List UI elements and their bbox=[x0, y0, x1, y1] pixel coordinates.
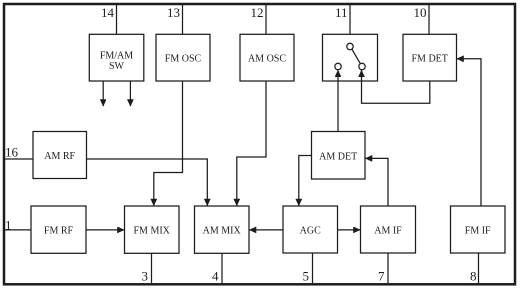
svg-text:12: 12 bbox=[251, 5, 264, 20]
block AM OSC bbox=[240, 34, 294, 81]
svg-text:FM OSC: FM OSC bbox=[165, 54, 202, 65]
wire FM IF to FM DET bbox=[457, 59, 481, 206]
wire AGC to AM MIX bbox=[250, 229, 284, 231]
block FM OSC bbox=[156, 34, 210, 81]
block FM RF bbox=[31, 206, 86, 253]
wire FM DET to switch right terminal bbox=[362, 70, 430, 103]
block FM IF bbox=[451, 206, 506, 253]
pin 11 bbox=[335, 5, 350, 35]
pin 4 bbox=[212, 253, 222, 283]
svg-text:3: 3 bbox=[142, 269, 149, 284]
wire AM DET to AGC bbox=[299, 156, 312, 206]
svg-text:8: 8 bbox=[470, 269, 477, 284]
svg-text:AGC: AGC bbox=[300, 226, 321, 237]
wire AM OSC to AM MIX bbox=[237, 81, 266, 206]
pin 5 bbox=[303, 253, 313, 284]
svg-text:7: 7 bbox=[378, 269, 385, 284]
svg-text:AM DET: AM DET bbox=[319, 151, 357, 162]
svg-text:FM/AM: FM/AM bbox=[100, 51, 133, 62]
pin 10 bbox=[414, 5, 430, 35]
block AGC bbox=[283, 206, 338, 253]
block AM DET bbox=[312, 132, 366, 180]
block AM RF bbox=[33, 132, 87, 179]
wire AM RF to AM MIX bbox=[87, 159, 208, 206]
block FM MIX bbox=[125, 206, 180, 253]
svg-text:AM MIX: AM MIX bbox=[203, 226, 242, 237]
svg-text:FM DET: FM DET bbox=[411, 54, 447, 65]
svg-text:FM MIX: FM MIX bbox=[133, 226, 170, 237]
svg-text:14: 14 bbox=[101, 5, 115, 20]
pin 13 bbox=[167, 5, 183, 35]
wire AM IF to AM DET bbox=[366, 158, 389, 206]
svg-text:AM OSC: AM OSC bbox=[248, 54, 286, 65]
svg-text:AM IF: AM IF bbox=[374, 226, 402, 237]
block FM DET bbox=[403, 34, 457, 81]
wire AM DET to switch left terminal bbox=[337, 70, 339, 131]
wire FM RF to FM MIX bbox=[86, 229, 124, 231]
svg-text:13: 13 bbox=[167, 5, 180, 20]
svg-text:5: 5 bbox=[303, 269, 310, 284]
block FM/AM SW bbox=[89, 34, 144, 81]
wire FM/AM SW output A bbox=[102, 81, 104, 106]
svg-text:AM RF: AM RF bbox=[44, 151, 75, 162]
pin 3 bbox=[142, 253, 152, 283]
wire AGC to AM IF bbox=[338, 229, 361, 231]
pin 1 bbox=[5, 217, 32, 232]
pin 16 bbox=[5, 145, 34, 160]
svg-text:16: 16 bbox=[5, 145, 19, 160]
pin 14 bbox=[101, 5, 117, 35]
svg-text:4: 4 bbox=[212, 269, 219, 284]
pin 7 bbox=[378, 253, 388, 284]
svg-text:SW: SW bbox=[109, 61, 125, 72]
pin 12 bbox=[251, 5, 267, 35]
wire FM/AM SW output B bbox=[129, 81, 131, 106]
block AM IF bbox=[361, 206, 416, 253]
switch S1 bbox=[323, 34, 378, 81]
svg-text:11: 11 bbox=[335, 5, 348, 20]
block AM MIX bbox=[195, 206, 250, 253]
pin 8 bbox=[470, 253, 479, 284]
wire FM OSC to FM MIX bbox=[154, 81, 183, 206]
svg-text:10: 10 bbox=[414, 5, 427, 20]
svg-text:FM IF: FM IF bbox=[465, 226, 491, 237]
svg-text:FM RF: FM RF bbox=[44, 226, 74, 237]
svg-text:1: 1 bbox=[5, 217, 12, 232]
